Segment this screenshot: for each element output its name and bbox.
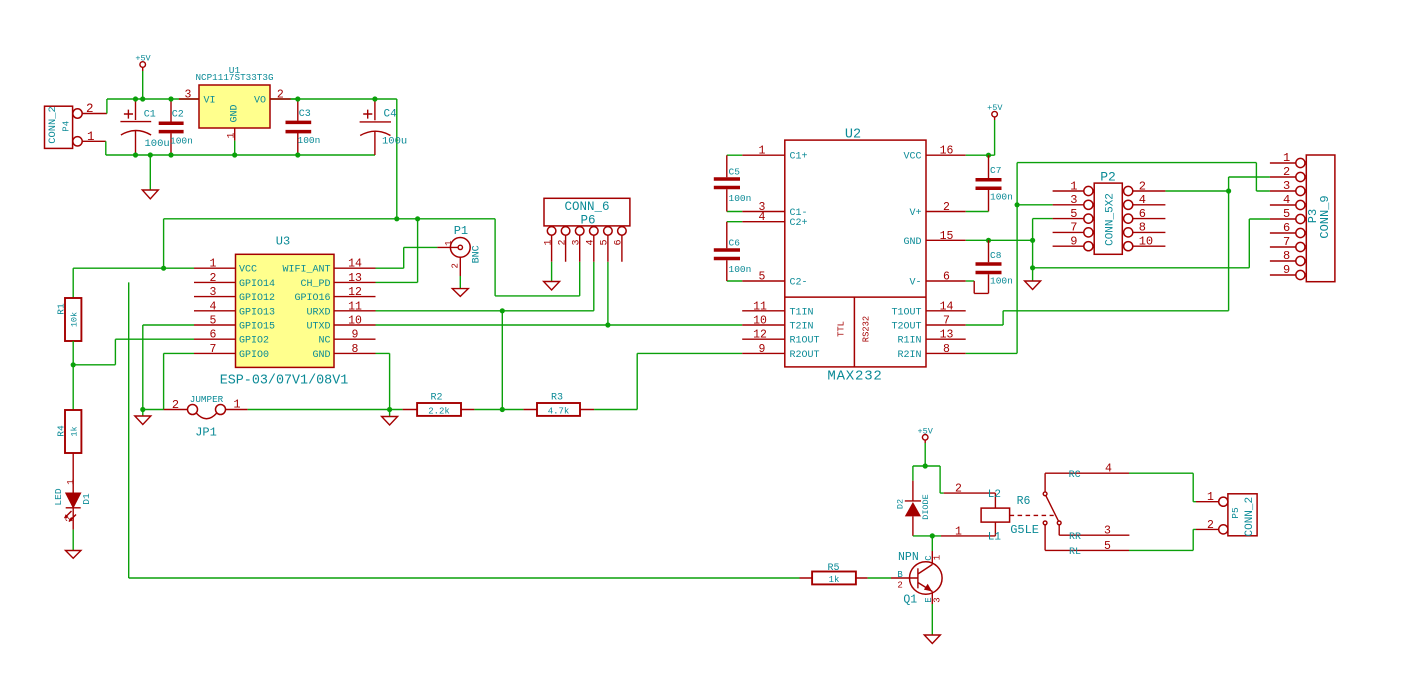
wire GND row bbox=[966, 239, 1033, 241]
svg-text:7: 7 bbox=[1283, 235, 1290, 249]
svg-text:2: 2 bbox=[277, 88, 284, 101]
svg-text:10: 10 bbox=[348, 315, 362, 328]
svg-text:2: 2 bbox=[1283, 165, 1290, 179]
node C4 top junction bbox=[372, 96, 377, 101]
svg-text:C2+: C2+ bbox=[790, 218, 808, 229]
svg-text:GPIO12: GPIO12 bbox=[239, 293, 275, 304]
node UTXD/P6 pin5 bbox=[605, 322, 610, 327]
capacitor C4 100u bbox=[360, 99, 408, 155]
svg-text:NC: NC bbox=[318, 336, 330, 347]
node GND branch bbox=[1030, 238, 1035, 243]
svg-text:CH_PD: CH_PD bbox=[300, 279, 330, 290]
svg-text:5: 5 bbox=[1283, 207, 1290, 221]
svg-text:V+: V+ bbox=[909, 208, 921, 219]
node C1 top junction bbox=[133, 96, 138, 101]
svg-text:MAX232: MAX232 bbox=[827, 368, 882, 384]
wire rail drop right to ESP section bbox=[396, 99, 398, 219]
svg-text:P1: P1 bbox=[454, 224, 468, 238]
node GND/P3 branch bbox=[1030, 265, 1035, 270]
svg-text:9: 9 bbox=[1070, 235, 1077, 249]
svg-text:4: 4 bbox=[1283, 193, 1290, 207]
svg-text:4: 4 bbox=[210, 300, 217, 313]
svg-text:1: 1 bbox=[1207, 491, 1214, 504]
svg-text:1k: 1k bbox=[69, 426, 79, 436]
node collector/coil bbox=[930, 533, 935, 538]
svg-text:100n: 100n bbox=[990, 275, 1013, 286]
node C8 top bbox=[986, 238, 991, 243]
node U1 GND junction bbox=[232, 152, 237, 157]
svg-text:C6: C6 bbox=[729, 237, 741, 248]
svg-text:P5: P5 bbox=[1230, 507, 1241, 519]
svg-text:RC: RC bbox=[1069, 470, 1081, 481]
resistor R5 1k bbox=[800, 563, 868, 585]
svg-text:9: 9 bbox=[759, 343, 766, 356]
connector P4 CONN_2 bbox=[45, 102, 107, 148]
svg-text:R1: R1 bbox=[55, 303, 66, 315]
wire R3 to R2OUT bbox=[594, 353, 742, 409]
wire P4 pin2 up to rail bbox=[106, 99, 108, 114]
ground (Q1) bbox=[924, 635, 940, 644]
regulator U1 NCP1117ST33T3G bbox=[195, 65, 273, 128]
svg-text:Q1: Q1 bbox=[903, 594, 917, 607]
svg-text:6: 6 bbox=[210, 329, 217, 342]
svg-text:D2: D2 bbox=[895, 499, 905, 509]
svg-text:ESP-03/07V1/08V1: ESP-03/07V1/08V1 bbox=[220, 374, 349, 389]
svg-text:5: 5 bbox=[600, 239, 611, 245]
node coil supply bbox=[923, 463, 928, 468]
IC U2 MAX232 bbox=[785, 127, 926, 384]
power flag +5V (top-left) bbox=[135, 53, 151, 71]
svg-text:2: 2 bbox=[451, 263, 461, 268]
wire to ground stub bbox=[389, 410, 391, 417]
node VCC rail junction bbox=[394, 216, 399, 221]
node P2 pin3 bbox=[1015, 202, 1020, 207]
svg-text:1: 1 bbox=[226, 132, 237, 138]
svg-text:GPIO2: GPIO2 bbox=[239, 336, 269, 347]
node C2 top junction bbox=[168, 96, 173, 101]
svg-text:1: 1 bbox=[759, 145, 766, 158]
svg-text:2.2k: 2.2k bbox=[428, 406, 450, 416]
svg-text:3: 3 bbox=[1104, 525, 1111, 538]
svg-text:2: 2 bbox=[172, 398, 179, 412]
capacitor C3 100n bbox=[286, 99, 321, 155]
node P2 pin2 bbox=[1226, 188, 1231, 193]
svg-text:10: 10 bbox=[753, 315, 767, 328]
svg-text:1: 1 bbox=[933, 555, 943, 560]
wire +5V to VCC row bbox=[966, 120, 995, 155]
connector P5 CONN_2 bbox=[1196, 491, 1257, 536]
svg-text:100n: 100n bbox=[990, 191, 1013, 202]
svg-text:2: 2 bbox=[210, 272, 217, 285]
U2 right pin numbers bbox=[940, 145, 954, 356]
connector P3 CONN_9 bbox=[1270, 151, 1335, 282]
module U3 ESP-03/07V1/08V1 bbox=[220, 234, 349, 388]
svg-text:13: 13 bbox=[348, 272, 362, 285]
svg-text:9: 9 bbox=[1283, 263, 1290, 277]
svg-text:T2IN: T2IN bbox=[790, 322, 814, 333]
svg-text:1: 1 bbox=[233, 397, 240, 411]
capacitor C1 100u bbox=[120, 99, 169, 155]
svg-text:2: 2 bbox=[955, 483, 962, 496]
svg-text:3: 3 bbox=[1070, 193, 1077, 207]
node C7 top bbox=[986, 153, 991, 158]
connector P1 BNC bbox=[437, 224, 482, 276]
svg-text:2: 2 bbox=[1139, 179, 1146, 193]
relay switch contacts bbox=[1043, 463, 1129, 558]
wire GPIO0 down to jumper bbox=[143, 353, 194, 409]
svg-text:V-: V- bbox=[909, 278, 921, 289]
svg-text:12: 12 bbox=[753, 329, 767, 342]
wire V+ row to C7 bbox=[966, 211, 989, 213]
svg-text:100n: 100n bbox=[729, 264, 752, 275]
wire divider up to URXD bbox=[501, 311, 503, 410]
svg-text:13: 13 bbox=[940, 329, 954, 342]
ground (LED) bbox=[66, 551, 81, 559]
wire GPIO15 to gnd line bbox=[143, 325, 194, 410]
svg-text:C1: C1 bbox=[144, 110, 156, 121]
svg-text:GPIO0: GPIO0 bbox=[239, 350, 269, 361]
svg-text:CONN_9: CONN_9 bbox=[1318, 195, 1332, 238]
svg-text:8: 8 bbox=[1139, 221, 1146, 235]
svg-text:5: 5 bbox=[759, 271, 766, 284]
wire GPIO14 long run to R5 bbox=[129, 282, 800, 578]
svg-text:T1OUT: T1OUT bbox=[891, 307, 921, 318]
wire V- jog to C8 bbox=[966, 280, 975, 282]
wire WIFI_ANT to BNC bbox=[376, 247, 438, 268]
node C1 bottom junction bbox=[133, 152, 138, 157]
svg-text:GPIO13: GPIO13 bbox=[239, 307, 275, 318]
svg-text:GPIO16: GPIO16 bbox=[294, 293, 330, 304]
svg-text:WIFI_ANT: WIFI_ANT bbox=[282, 265, 330, 276]
diode D2 bbox=[895, 466, 931, 536]
resistor R2 2.2k bbox=[403, 392, 475, 416]
wire R5 to Q1 base bbox=[868, 577, 891, 579]
svg-text:CONN_6: CONN_6 bbox=[564, 200, 609, 214]
svg-text:+5V: +5V bbox=[918, 426, 934, 436]
wire GND chain down/right to P3 pin5 bbox=[1033, 219, 1270, 281]
svg-text:7: 7 bbox=[1070, 221, 1077, 235]
svg-text:T2OUT: T2OUT bbox=[891, 322, 921, 333]
svg-text:B: B bbox=[897, 570, 903, 580]
wire top supply rail bbox=[107, 98, 397, 100]
node +5V junction bbox=[140, 96, 145, 101]
node R1/R4 junction bbox=[71, 362, 76, 367]
svg-text:1: 1 bbox=[1283, 151, 1290, 165]
svg-text:3: 3 bbox=[572, 239, 583, 245]
wire R2 to divider node bbox=[474, 409, 523, 411]
svg-text:2: 2 bbox=[86, 102, 94, 116]
svg-text:1: 1 bbox=[66, 479, 76, 484]
svg-text:3: 3 bbox=[933, 597, 943, 602]
wire U1 GND to rail bbox=[234, 141, 236, 155]
relay R6 G5LE coil bbox=[941, 483, 1054, 544]
svg-text:2: 2 bbox=[557, 239, 568, 245]
wire jumper to R2 node bbox=[248, 409, 403, 411]
svg-text:5: 5 bbox=[1070, 207, 1077, 221]
node C3 top junction bbox=[295, 96, 300, 101]
ground (MAX232 area) bbox=[1025, 281, 1041, 290]
wire VCC row to R1 bbox=[73, 267, 194, 269]
capacitor C5 100n bbox=[714, 155, 752, 211]
wire BNC pin2 to ground bbox=[459, 276, 461, 289]
transistor Q1 NPN bbox=[891, 551, 943, 607]
node URXD bbox=[500, 308, 505, 313]
svg-text:CONN_5X2: CONN_5X2 bbox=[1104, 193, 1116, 246]
svg-text:VCC: VCC bbox=[239, 265, 257, 276]
node C2 bottom junction bbox=[168, 152, 173, 157]
connector P2 CONN_5X2 bbox=[1053, 170, 1166, 255]
wire P6 pin1 to ground bbox=[551, 262, 553, 282]
resistor R1 10k bbox=[55, 298, 81, 341]
svg-text:R5: R5 bbox=[827, 563, 839, 574]
U2 left pin numbers bbox=[753, 145, 767, 356]
svg-text:R6: R6 bbox=[1017, 495, 1031, 508]
U3 right pin stubs 14-8 bbox=[334, 268, 376, 353]
wire ESP GND pin8 to gnd node bbox=[376, 353, 390, 409]
resistor R4 1k bbox=[55, 410, 81, 453]
svg-text:U3: U3 bbox=[276, 234, 290, 248]
wire RL to P5 pin2 bbox=[1129, 529, 1196, 550]
svg-text:T1IN: T1IN bbox=[790, 307, 814, 318]
svg-text:4.7k: 4.7k bbox=[548, 406, 570, 416]
svg-text:1: 1 bbox=[1070, 179, 1077, 193]
node C3 bottom junction bbox=[295, 152, 300, 157]
svg-text:100n: 100n bbox=[729, 193, 752, 204]
svg-text:6: 6 bbox=[943, 271, 950, 284]
wire +5V down to coil node bbox=[924, 443, 926, 466]
wire rail to ground bbox=[149, 155, 151, 190]
svg-text:D1: D1 bbox=[81, 493, 92, 505]
svg-text:1: 1 bbox=[543, 239, 554, 245]
U3 left pin stubs 1-7 bbox=[194, 268, 236, 353]
svg-text:C1+: C1+ bbox=[790, 152, 808, 163]
wire junction to GPIO2 bbox=[73, 339, 194, 365]
wire node split bbox=[913, 466, 944, 493]
svg-text:CONN_2: CONN_2 bbox=[1244, 497, 1256, 537]
wire to ground stub bbox=[142, 410, 144, 417]
wire R1 to junction bbox=[72, 341, 74, 410]
svg-text:2: 2 bbox=[897, 580, 902, 590]
svg-text:GND: GND bbox=[230, 104, 241, 122]
svg-text:BNC: BNC bbox=[472, 245, 483, 263]
svg-text:DIODE: DIODE bbox=[921, 494, 931, 520]
svg-text:R2: R2 bbox=[430, 392, 442, 403]
svg-text:100u: 100u bbox=[382, 136, 407, 148]
wire bottom ground rail bbox=[106, 154, 375, 156]
svg-text:LED: LED bbox=[53, 488, 64, 505]
ground (BNC) bbox=[452, 289, 468, 297]
svg-text:U2: U2 bbox=[845, 127, 861, 142]
wire VCC net top horizontal bbox=[164, 218, 496, 220]
svg-text:15: 15 bbox=[940, 230, 954, 243]
svg-text:8: 8 bbox=[1283, 249, 1290, 263]
svg-text:100n: 100n bbox=[170, 136, 193, 147]
wire CH_PD to VCC bbox=[376, 219, 418, 283]
svg-text:+5V: +5V bbox=[135, 53, 151, 63]
svg-text:GPIO14: GPIO14 bbox=[239, 279, 275, 290]
svg-text:P2: P2 bbox=[1100, 170, 1116, 185]
svg-text:R2IN: R2IN bbox=[897, 350, 921, 361]
capacitor C6 100n bbox=[714, 222, 752, 281]
svg-text:7: 7 bbox=[943, 315, 950, 328]
U1 pin 3 VI bbox=[179, 98, 199, 100]
svg-text:VO: VO bbox=[254, 96, 266, 107]
svg-text:R1OUT: R1OUT bbox=[790, 336, 820, 347]
wire R2IN net to P2 pin3 and P3 pin3 bbox=[966, 163, 1270, 354]
node gnd line left bbox=[140, 407, 145, 412]
svg-text:C5: C5 bbox=[729, 166, 741, 177]
svg-text:11: 11 bbox=[348, 300, 362, 313]
svg-text:GPIO15: GPIO15 bbox=[239, 322, 275, 333]
wire P4 pin1 down to rail bbox=[105, 141, 107, 155]
svg-text:RS232: RS232 bbox=[861, 316, 871, 342]
wire Q1 emitter to ground bbox=[931, 604, 933, 635]
wire VCC drop to ESP pin1 bbox=[163, 219, 165, 268]
wire LED to ground bbox=[72, 508, 74, 530]
node CH_PD branch junction bbox=[415, 216, 420, 221]
svg-text:CONN_2: CONN_2 bbox=[47, 106, 59, 143]
svg-text:14: 14 bbox=[940, 300, 954, 313]
capacitor C7 100n bbox=[976, 155, 1013, 211]
svg-text:C7: C7 bbox=[990, 165, 1001, 176]
svg-text:NCP1117ST33T3G: NCP1117ST33T3G bbox=[195, 72, 273, 83]
svg-text:5: 5 bbox=[1104, 540, 1111, 553]
svg-text:9: 9 bbox=[352, 329, 359, 342]
U1 pin 1 GND bbox=[234, 128, 236, 141]
svg-text:3: 3 bbox=[185, 88, 192, 101]
svg-text:JP1: JP1 bbox=[195, 425, 217, 439]
svg-text:L1: L1 bbox=[988, 532, 1002, 544]
svg-text:1: 1 bbox=[87, 130, 95, 144]
svg-text:8: 8 bbox=[943, 343, 950, 356]
svg-text:C4: C4 bbox=[384, 109, 398, 121]
power flag +5V (MAX232) bbox=[987, 103, 1003, 120]
svg-text:2: 2 bbox=[1207, 519, 1214, 532]
svg-text:1: 1 bbox=[210, 258, 217, 271]
svg-text:12: 12 bbox=[348, 286, 362, 299]
svg-text:P6: P6 bbox=[580, 214, 595, 228]
svg-text:4: 4 bbox=[586, 239, 597, 245]
svg-text:6: 6 bbox=[1283, 221, 1290, 235]
svg-text:100u: 100u bbox=[145, 138, 170, 150]
wire coil bottom row bbox=[913, 535, 941, 537]
wire Q1 collector up bbox=[931, 536, 933, 551]
wire VCC to P6 pin3 bbox=[495, 219, 580, 296]
wire URXD row bbox=[376, 262, 594, 311]
svg-text:C3: C3 bbox=[299, 109, 311, 120]
svg-text:L2: L2 bbox=[988, 489, 1001, 501]
svg-text:2: 2 bbox=[943, 201, 950, 214]
svg-text:JUMPER: JUMPER bbox=[190, 394, 224, 405]
svg-text:4: 4 bbox=[1105, 463, 1112, 476]
capacitor C2 100n bbox=[159, 99, 193, 155]
node divider bbox=[500, 407, 505, 412]
svg-text:C2: C2 bbox=[172, 110, 184, 121]
svg-text:RL: RL bbox=[1069, 547, 1081, 558]
svg-text:4: 4 bbox=[759, 211, 766, 224]
svg-text:RR: RR bbox=[1069, 532, 1081, 543]
svg-text:C8: C8 bbox=[990, 250, 1002, 261]
svg-text:R1IN: R1IN bbox=[897, 336, 921, 347]
svg-text:4: 4 bbox=[1139, 193, 1146, 207]
capacitor C8 100n bbox=[976, 240, 1013, 293]
svg-text:P4: P4 bbox=[62, 121, 72, 132]
svg-text:5: 5 bbox=[210, 315, 217, 328]
power flag +5V (relay) bbox=[918, 426, 934, 443]
ground (power supply) bbox=[142, 190, 158, 199]
svg-text:1k: 1k bbox=[829, 575, 840, 585]
jumper JP1 bbox=[164, 394, 248, 440]
svg-text:100n: 100n bbox=[298, 135, 321, 146]
U2 right pin stubs bbox=[926, 155, 966, 353]
ground (R2 left) bbox=[382, 417, 398, 426]
svg-text:14: 14 bbox=[348, 258, 362, 271]
svg-text:C2-: C2- bbox=[790, 278, 808, 289]
node R2 left / gnd bbox=[387, 407, 392, 412]
svg-text:7: 7 bbox=[210, 343, 217, 356]
connector P6 CONN_6 bbox=[543, 198, 630, 261]
ground (jumper line) bbox=[135, 416, 151, 425]
svg-text:G5LE: G5LE bbox=[1010, 523, 1039, 537]
svg-text:10: 10 bbox=[1139, 235, 1153, 249]
resistor R3 4.7k bbox=[523, 392, 594, 416]
LED D1 bbox=[53, 479, 92, 522]
svg-text:10k: 10k bbox=[69, 312, 79, 327]
svg-text:GND: GND bbox=[903, 237, 921, 248]
svg-text:R3: R3 bbox=[551, 392, 563, 403]
node ground stub junction bbox=[148, 152, 153, 157]
svg-text:16: 16 bbox=[940, 145, 954, 158]
wire P2 pin5 to GND bbox=[1033, 219, 1053, 241]
svg-text:NPN: NPN bbox=[898, 551, 919, 564]
svg-text:1: 1 bbox=[444, 240, 454, 245]
svg-text:1: 1 bbox=[955, 525, 962, 538]
U2 left pin stubs bbox=[742, 155, 785, 353]
wire RC to P5 pin1 bbox=[1129, 473, 1196, 502]
wire UTXD row to T2IN bbox=[376, 324, 743, 326]
svg-text:8: 8 bbox=[352, 343, 359, 356]
svg-text:VI: VI bbox=[204, 96, 216, 107]
U3 right pin numbers bbox=[348, 258, 362, 356]
svg-text:6: 6 bbox=[614, 239, 625, 245]
wire R4 to LED bbox=[72, 453, 74, 493]
wire VO to rail bbox=[291, 98, 298, 100]
svg-text:R4: R4 bbox=[55, 425, 66, 437]
U1 pin 2 VO bbox=[270, 98, 291, 100]
svg-text:UTXD: UTXD bbox=[306, 322, 330, 333]
svg-text:VCC: VCC bbox=[903, 152, 921, 163]
svg-text:TTL: TTL bbox=[837, 321, 847, 337]
ground (P6 pin1) bbox=[544, 282, 560, 291]
svg-text:URXD: URXD bbox=[306, 307, 330, 318]
svg-text:+5V: +5V bbox=[987, 103, 1003, 113]
svg-text:3: 3 bbox=[1283, 179, 1290, 193]
wire +5V to top rail bbox=[142, 71, 144, 99]
svg-text:GND: GND bbox=[312, 350, 330, 361]
svg-text:11: 11 bbox=[753, 300, 767, 313]
U3 left pin numbers bbox=[210, 258, 217, 356]
svg-text:6: 6 bbox=[1139, 207, 1146, 221]
svg-text:R2OUT: R2OUT bbox=[790, 350, 820, 361]
wire T2OUT net to P2 pin2 and P3 pin2 bbox=[966, 177, 1270, 325]
svg-text:3: 3 bbox=[210, 286, 217, 299]
